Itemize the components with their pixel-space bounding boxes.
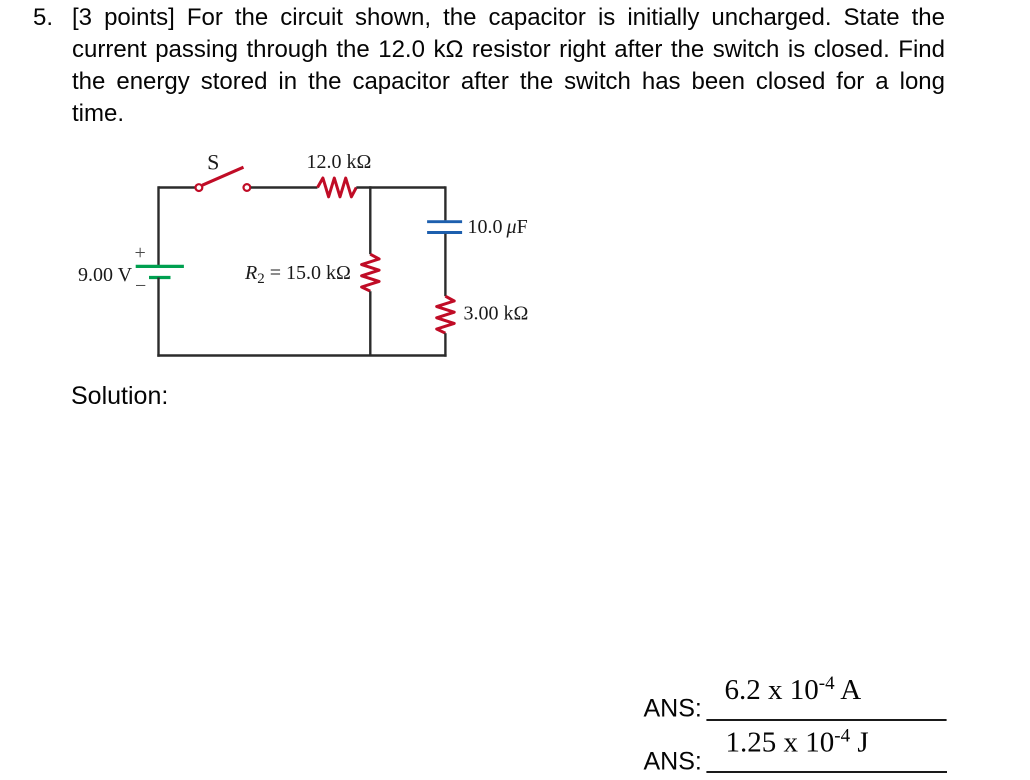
capacitor C1 bottom plate [427, 231, 462, 234]
answer line 1 [706, 719, 946, 721]
svg-text:12.0 kΩ: 12.0 kΩ [307, 151, 372, 173]
svg-text:1.25 x 10-4 J: 1.25 x 10-4 J [726, 725, 869, 758]
svg-text:S: S [207, 149, 219, 174]
Solution label [71, 382, 168, 411]
svg-text:−: − [135, 275, 146, 297]
wire: resistor R1 to top-right corner [356, 186, 445, 188]
svg-text:+: + [135, 242, 146, 264]
resistor R3 3.00 kOhm (vertical zigzag) [437, 296, 455, 333]
wire: middle branch upper (top rail to R2) [369, 186, 371, 254]
problem text line 2 [72, 34, 945, 66]
svg-text:ANS:: ANS: [644, 695, 702, 723]
svg-text:10.0 μF: 10.0 μF [468, 216, 528, 238]
wire: bottom rail [157, 354, 446, 356]
battery B1 short plate (-) [149, 276, 171, 279]
wire: top-left segment from left corner to switch [159, 186, 196, 188]
svg-text:6.2 x 10-4 A: 6.2 x 10-4 A [725, 673, 862, 706]
problem text line 3 [72, 66, 945, 98]
battery B1 long plate (+) [136, 265, 184, 268]
wire: middle branch lower (R2 to bottom rail) [369, 291, 371, 355]
resistor R1 12.0 kOhm (horizontal zigzag) [318, 178, 357, 197]
wire: right branch lower (R3 to bottom-right corner) [444, 333, 446, 357]
svg-text:R2 = 15.0 kΩ: R2 = 15.0 kΩ [244, 262, 351, 287]
capacitor C1 top plate [427, 220, 462, 223]
problem text line 4 [72, 98, 945, 130]
svg-text:ANS:: ANS: [644, 747, 702, 775]
answer line 2 [706, 771, 947, 773]
problem number [33, 2, 53, 34]
switch S (red, open) [196, 167, 251, 191]
wire: right branch upper (top rail to capacitor) [444, 186, 446, 220]
wire: right branch middle (capacitor to R3) [444, 234, 446, 296]
wire: switch to resistor R1 [251, 186, 318, 188]
svg-text:9.00 V: 9.00 V [78, 264, 133, 286]
problem text line 1 [72, 2, 945, 34]
resistor R2 15.0 kOhm (vertical zigzag) [362, 254, 380, 291]
svg-text:3.00 kΩ: 3.00 kΩ [464, 303, 529, 325]
wire: left branch lower (battery to bottom-left corner) [157, 278, 159, 357]
wire: left branch upper (corner to battery top plate) [157, 186, 159, 266]
